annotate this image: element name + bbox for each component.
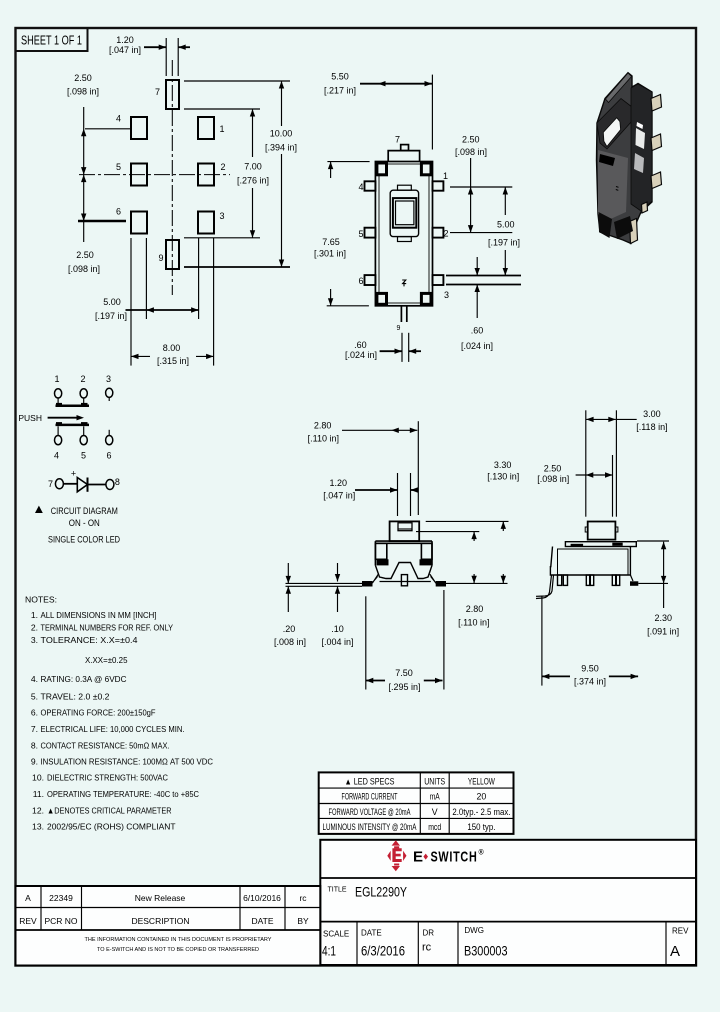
svg-text:.10: .10: [331, 624, 344, 634]
svg-text:[.217 in]: [.217 in]: [324, 86, 356, 96]
svg-text:1.: 1.: [31, 610, 38, 620]
svg-text:YELLOW: YELLOW: [468, 777, 496, 787]
svg-text:SHEET 1 OF 1: SHEET 1 OF 1: [21, 33, 82, 48]
svg-text:A: A: [25, 893, 31, 903]
svg-text:®: ®: [479, 849, 485, 857]
svg-text:PCR NO: PCR NO: [44, 916, 77, 926]
svg-text:.20: .20: [283, 624, 296, 634]
svg-text:3: 3: [106, 374, 111, 384]
svg-text:.60: .60: [354, 340, 367, 350]
svg-text:DR: DR: [423, 929, 435, 938]
svg-text:ELECTRICAL LIFE: 10,000 CYCLES: ELECTRICAL LIFE: 10,000 CYCLES MIN.: [41, 724, 185, 734]
svg-text:SINGLE COLOR LED: SINGLE COLOR LED: [48, 535, 120, 545]
svg-text:DWG: DWG: [464, 926, 484, 935]
svg-text:2: 2: [80, 374, 85, 384]
svg-text:OPERATING FORCE: 200±150gF: OPERATING FORCE: 200±150gF: [41, 708, 156, 718]
svg-text:6: 6: [106, 450, 111, 460]
svg-text:[.197 in]: [.197 in]: [488, 238, 520, 248]
svg-text:[.047 in]: [.047 in]: [323, 490, 355, 500]
svg-text:10.00: 10.00: [270, 129, 293, 139]
svg-text:EGL2290Y: EGL2290Y: [355, 884, 407, 900]
svg-text:3.: 3.: [31, 635, 38, 645]
svg-text:2.50: 2.50: [544, 463, 562, 473]
svg-text:2: 2: [443, 229, 448, 239]
svg-text:CIRCUIT DIAGRAM: CIRCUIT DIAGRAM: [51, 506, 118, 516]
svg-text:RATING: 0.3A @ 6VDC: RATING: 0.3A @ 6VDC: [41, 674, 127, 684]
svg-text:B300003: B300003: [464, 943, 508, 959]
svg-text:.60: .60: [471, 326, 484, 336]
svg-text:X.XX=±0.25: X.XX=±0.25: [85, 655, 128, 665]
svg-text:4: 4: [116, 114, 121, 124]
svg-text:[.024 in]: [.024 in]: [461, 341, 493, 351]
svg-text:[.024 in]: [.024 in]: [345, 350, 377, 360]
svg-text:10.: 10.: [32, 773, 44, 783]
svg-text:CONTACT RESISTANCE: 50mΩ MAX.: CONTACT RESISTANCE: 50mΩ MAX.: [41, 741, 170, 751]
svg-text:7.: 7.: [31, 724, 38, 734]
svg-text:V: V: [432, 807, 438, 817]
svg-text:9.: 9.: [31, 757, 38, 767]
svg-text:8.00: 8.00: [163, 343, 181, 353]
svg-text:5.00: 5.00: [103, 297, 121, 307]
svg-text:[.004 in]: [.004 in]: [321, 637, 353, 647]
svg-text:[.098 in]: [.098 in]: [67, 87, 99, 97]
svg-text:DATE: DATE: [251, 916, 273, 926]
svg-text:5.50: 5.50: [331, 72, 349, 82]
svg-text:SWITCH: SWITCH: [431, 849, 478, 866]
svg-text:8: 8: [115, 477, 120, 487]
svg-text:9: 9: [158, 253, 163, 263]
svg-text:5: 5: [358, 229, 363, 239]
svg-text:FORWARD VOLTAGE @ 20mA: FORWARD VOLTAGE @ 20mA: [329, 807, 411, 817]
svg-text:SCALE: SCALE: [323, 930, 349, 939]
svg-text:[.197 in]: [.197 in]: [95, 311, 127, 321]
svg-text:2.30: 2.30: [655, 613, 673, 623]
svg-text:2.50: 2.50: [74, 73, 92, 83]
svg-text:7.00: 7.00: [244, 162, 262, 172]
svg-text:TO E-SWITCH AND IS NOT TO BE C: TO E-SWITCH AND IS NOT TO BE COPIED OR T…: [97, 947, 259, 953]
svg-text:+: +: [71, 469, 76, 479]
svg-text:[.091 in]: [.091 in]: [647, 627, 679, 637]
svg-text:6: 6: [116, 207, 121, 217]
svg-text:6.: 6.: [31, 708, 38, 718]
svg-text:6/10/2016: 6/10/2016: [243, 893, 281, 903]
svg-text:mcd: mcd: [428, 822, 441, 832]
svg-text:BY: BY: [297, 916, 309, 926]
svg-text:DIELECTRIC STRENGTH: 500VAC: DIELECTRIC STRENGTH: 500VAC: [47, 773, 168, 783]
svg-text:PUSH: PUSH: [18, 413, 42, 423]
svg-text:[.098 in]: [.098 in]: [537, 474, 569, 484]
svg-text:5.: 5.: [31, 692, 38, 702]
svg-text:1: 1: [219, 124, 224, 134]
svg-text:4:1: 4:1: [322, 943, 336, 959]
svg-text:1: 1: [443, 171, 448, 181]
svg-text:3.00: 3.00: [643, 409, 661, 419]
svg-text:[.301 in]: [.301 in]: [314, 249, 346, 259]
svg-text:rc: rc: [422, 942, 432, 954]
svg-text:[.047 in]: [.047 in]: [109, 45, 141, 55]
svg-text:ALL DIMENSIONS IN MM [INCH]: ALL DIMENSIONS IN MM [INCH]: [41, 610, 157, 620]
svg-text:2.80: 2.80: [314, 420, 332, 430]
svg-text:2.: 2.: [31, 623, 38, 633]
svg-text:rc: rc: [299, 893, 307, 903]
svg-text:[.374 in]: [.374 in]: [574, 677, 606, 687]
svg-text:LUMINOUS INTENSITY @ 20mA: LUMINOUS INTENSITY @ 20mA: [323, 822, 417, 832]
svg-text:2.50: 2.50: [76, 250, 94, 260]
svg-text:THE INFORMATION CONTAINED IN T: THE INFORMATION CONTAINED IN THIS DOCUME…: [85, 937, 272, 943]
svg-text:2.0typ.- 2.5 max.: 2.0typ.- 2.5 max.: [452, 807, 510, 817]
svg-text:9: 9: [397, 325, 401, 332]
svg-text:[.394 in]: [.394 in]: [265, 143, 297, 153]
svg-text:2.50: 2.50: [462, 135, 480, 145]
svg-text:[.008 in]: [.008 in]: [274, 637, 306, 647]
svg-text:New Release: New Release: [135, 893, 186, 903]
svg-text:7.50: 7.50: [395, 668, 413, 678]
svg-text:2002/95/EC (ROHS) COMPLIANT: 2002/95/EC (ROHS) COMPLIANT: [47, 822, 176, 832]
svg-text:1: 1: [54, 374, 59, 384]
svg-text:3: 3: [444, 290, 449, 300]
svg-text:13.: 13.: [32, 822, 44, 832]
svg-text:6/3/2016: 6/3/2016: [361, 943, 405, 959]
svg-text:TERMINAL NUMBERS FOR REF. ONLY: TERMINAL NUMBERS FOR REF. ONLY: [41, 623, 174, 633]
svg-text:E: E: [413, 849, 424, 866]
svg-text:2.80: 2.80: [466, 604, 484, 614]
svg-text:3: 3: [219, 211, 224, 221]
svg-text:OPERATING TEMPERATURE: -40C to: OPERATING TEMPERATURE: -40C to +85C: [47, 789, 199, 799]
svg-text:DATE: DATE: [361, 929, 382, 938]
svg-text:[.118 in]: [.118 in]: [636, 422, 667, 432]
svg-text:[.110 in]: [.110 in]: [458, 618, 489, 628]
svg-text:4: 4: [54, 450, 59, 460]
svg-text:[.110 in]: [.110 in]: [308, 434, 339, 444]
svg-text:7: 7: [48, 479, 53, 489]
svg-text:TOLERANCE: X.X=±0.4: TOLERANCE: X.X=±0.4: [41, 635, 138, 645]
svg-text:ON - ON: ON - ON: [69, 518, 100, 528]
svg-text:12.: 12.: [32, 806, 44, 816]
svg-text:5: 5: [81, 450, 86, 460]
svg-text:4.: 4.: [31, 674, 38, 684]
svg-text:REV: REV: [19, 916, 37, 926]
svg-text:5.00: 5.00: [497, 219, 515, 229]
svg-text:mA: mA: [430, 792, 440, 802]
svg-text:1.20: 1.20: [116, 35, 134, 45]
svg-text:7.65: 7.65: [322, 237, 340, 247]
svg-text:A: A: [670, 943, 680, 960]
svg-text:UNITS: UNITS: [424, 777, 445, 787]
svg-text:4: 4: [358, 182, 363, 192]
svg-text:NOTES:: NOTES:: [25, 595, 57, 605]
svg-text:9.50: 9.50: [581, 664, 599, 674]
svg-text:150 typ.: 150 typ.: [467, 822, 495, 832]
svg-text:2: 2: [220, 162, 225, 172]
svg-text:▲DENOTES CRITICAL PARAMETER: ▲DENOTES CRITICAL PARAMETER: [47, 806, 172, 816]
svg-text:INSULATION RESISTANCE: 100MΩ A: INSULATION RESISTANCE: 100MΩ AT 500 VDC: [41, 757, 214, 767]
svg-text:[.098 in]: [.098 in]: [455, 147, 487, 157]
svg-text:20: 20: [477, 792, 487, 802]
svg-text:DESCRIPTION: DESCRIPTION: [131, 916, 189, 926]
svg-text:[.295 in]: [.295 in]: [388, 682, 420, 692]
svg-text:TITLE: TITLE: [328, 887, 347, 894]
svg-text:7: 7: [395, 135, 400, 145]
svg-text:1.20: 1.20: [330, 478, 348, 488]
svg-text:8.: 8.: [31, 741, 38, 751]
svg-text:6: 6: [358, 276, 363, 286]
svg-text:TRAVEL: 2.0 ±0.2: TRAVEL: 2.0 ±0.2: [41, 692, 110, 702]
svg-text:[.276 in]: [.276 in]: [237, 176, 269, 186]
svg-text:5: 5: [116, 162, 121, 172]
svg-text:[.315 in]: [.315 in]: [157, 356, 189, 366]
svg-text:11.: 11.: [33, 789, 44, 799]
svg-text:3.30: 3.30: [494, 460, 512, 470]
svg-text:▲ LED SPECS: ▲ LED SPECS: [345, 777, 395, 787]
svg-text:FORWARD CURRENT: FORWARD CURRENT: [342, 792, 398, 802]
svg-text:22349: 22349: [49, 893, 73, 903]
svg-text:REV: REV: [672, 927, 689, 936]
svg-text:7: 7: [155, 87, 160, 97]
svg-text:[.130 in]: [.130 in]: [487, 472, 519, 482]
svg-text:[.098 in]: [.098 in]: [68, 264, 100, 274]
